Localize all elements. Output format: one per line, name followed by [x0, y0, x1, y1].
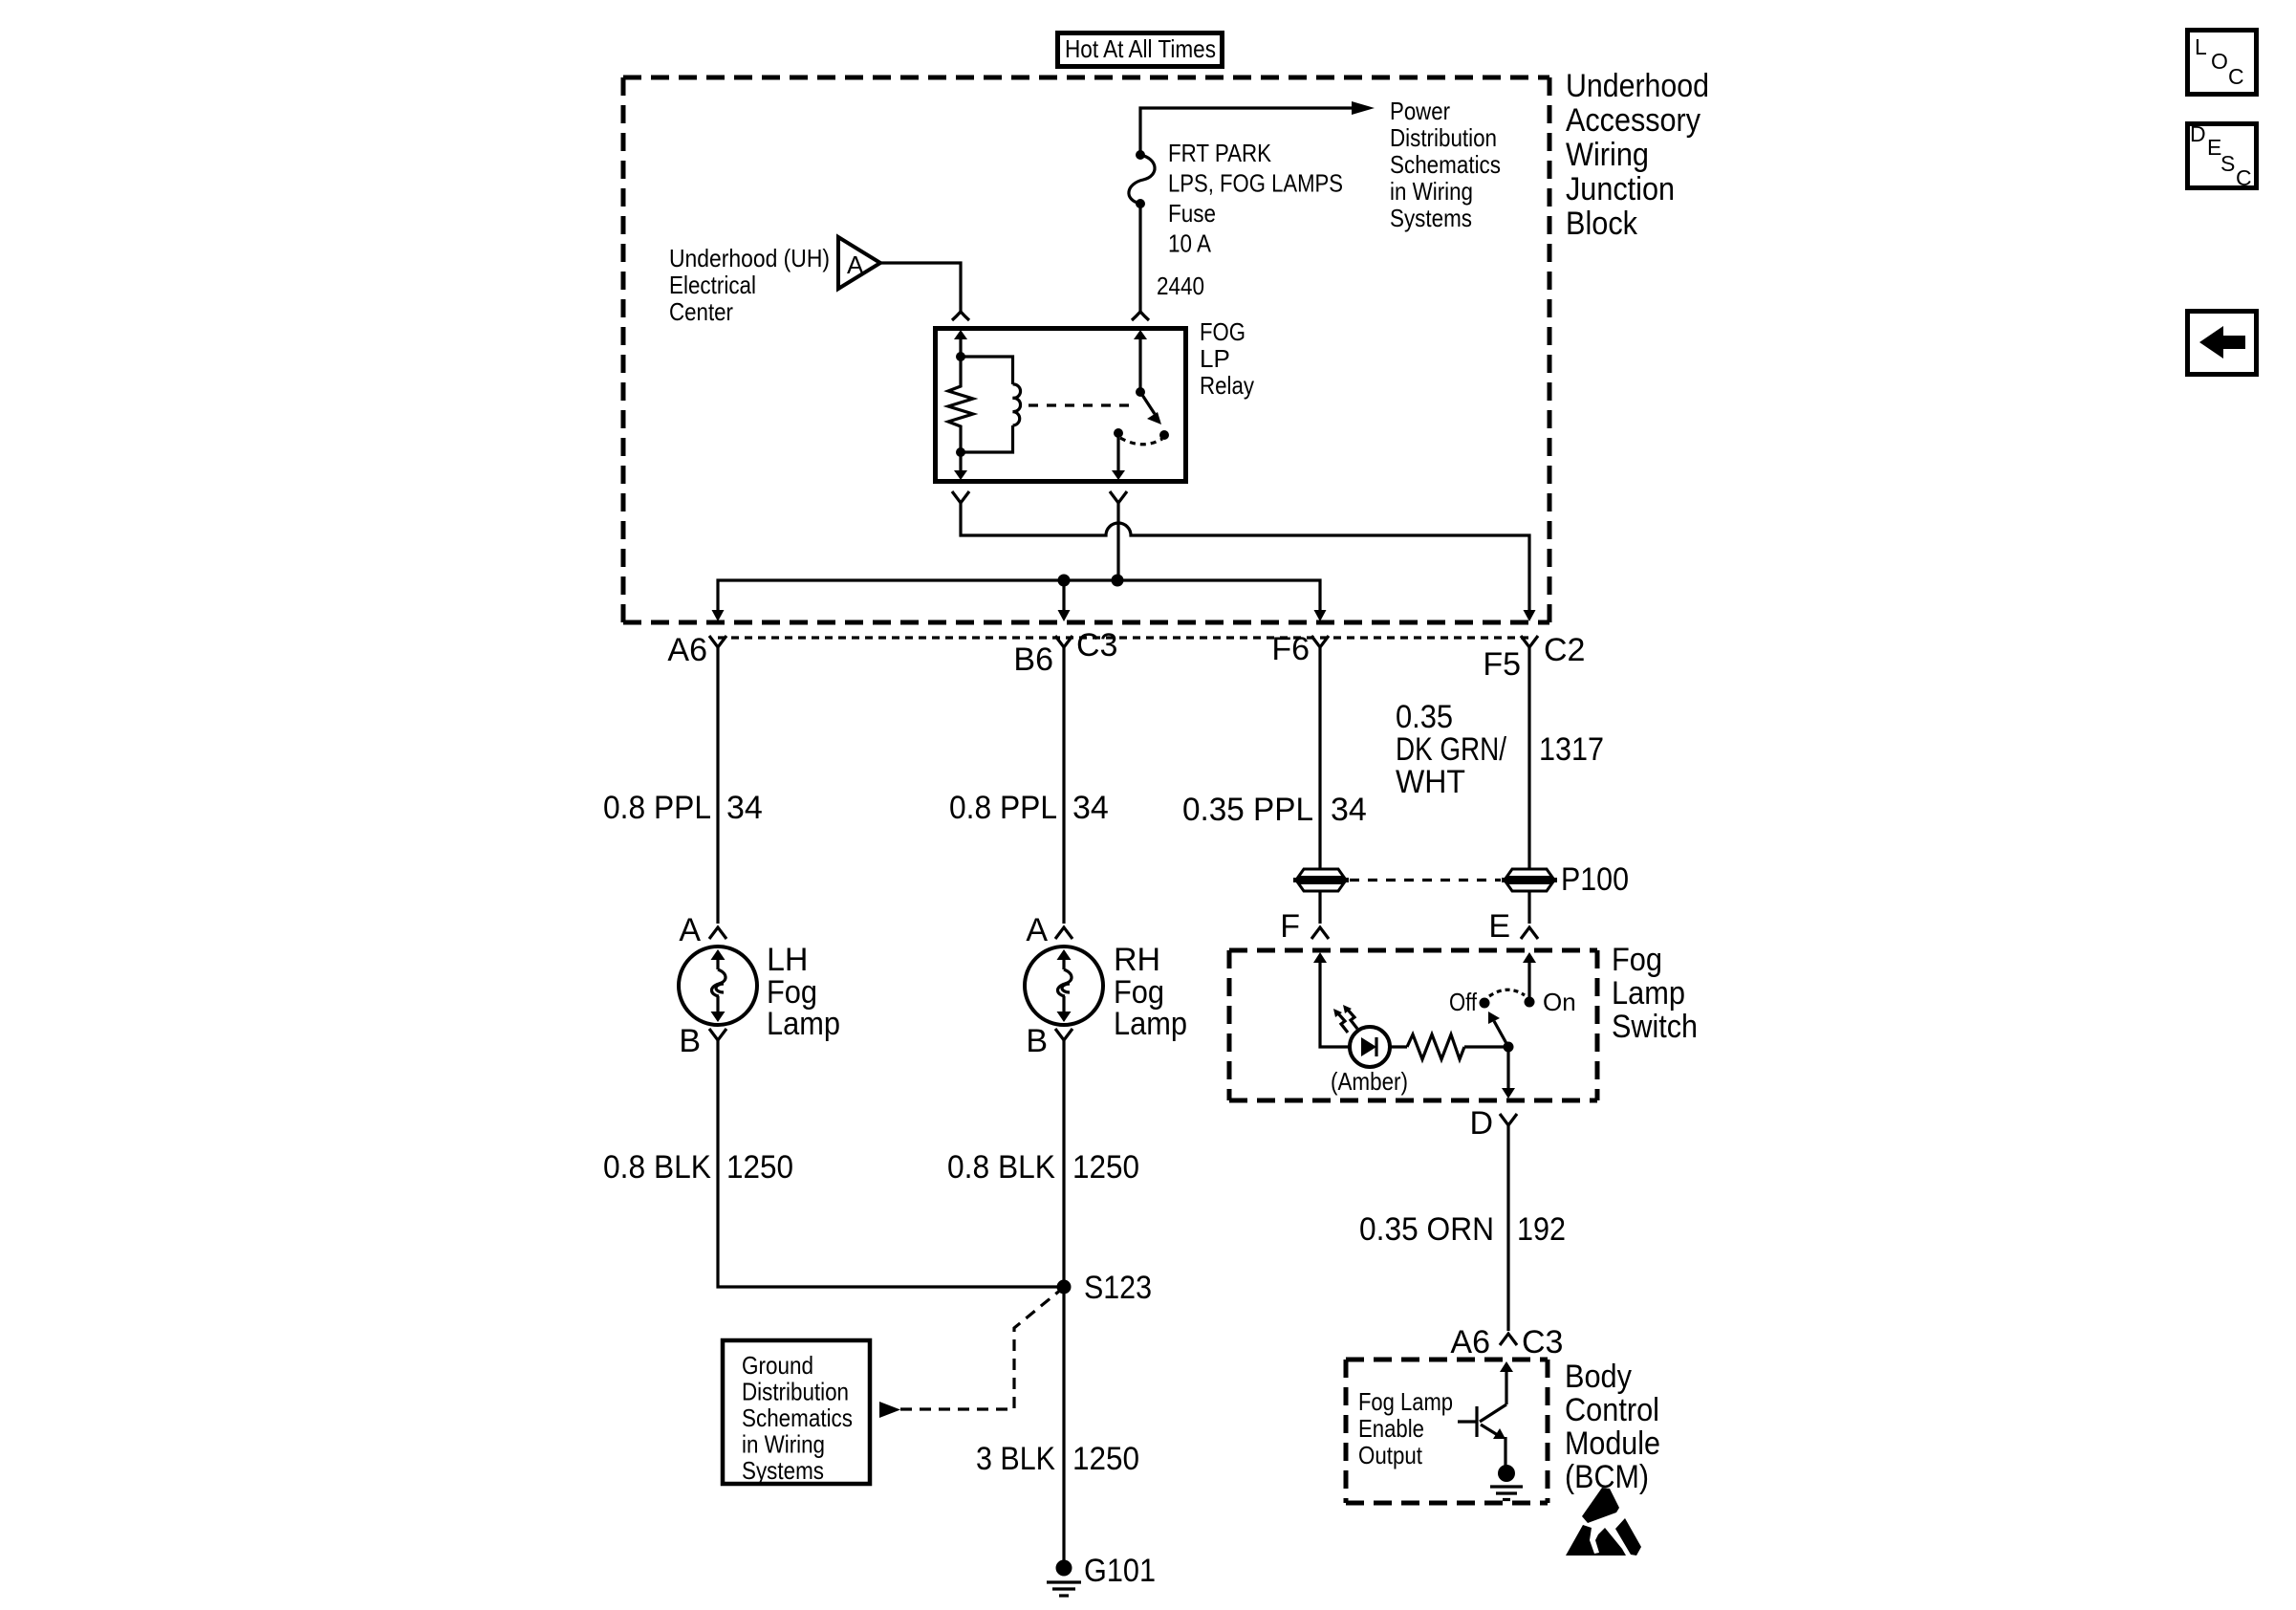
svg-text:0.8 PPL: 0.8 PPL: [949, 790, 1057, 826]
svg-text:LH: LH: [767, 942, 808, 978]
connector chevron A6: [709, 636, 726, 647]
svg-text:1317: 1317: [1539, 731, 1604, 768]
svg-text:10 A: 10 A: [1168, 229, 1212, 258]
BCM internal ground: [1490, 1465, 1523, 1500]
label: 0.8 PPL 34 (RH): [949, 790, 1109, 826]
label: 0.8 BLK 1250 (RH): [947, 1149, 1139, 1186]
svg-text:Hot At All Times: Hot At All Times: [1065, 34, 1216, 63]
wire: F6 to fog lamp switch 0.35 PPL 34: [1318, 647, 1321, 869]
svg-text:Fog: Fog: [1612, 942, 1662, 978]
svg-text:L: L: [2195, 34, 2207, 59]
label: LH Fog Lamp: [767, 942, 840, 1042]
relay internal resistor: [948, 357, 973, 452]
svg-text:Underhood: Underhood: [1566, 68, 1709, 104]
svg-text:Underhood (UH): Underhood (UH): [669, 244, 830, 272]
svg-text:A6: A6: [667, 632, 707, 668]
svg-text:D: D: [1469, 1105, 1493, 1142]
svg-text:A: A: [847, 250, 864, 279]
svg-text:Off: Off: [1449, 988, 1478, 1016]
svg-text:C2: C2: [1544, 632, 1585, 668]
svg-text:B6: B6: [1013, 642, 1053, 678]
body control module dashed box: [1346, 1360, 1548, 1503]
inline connector P100 (right half): [1502, 869, 1557, 891]
inline connector P100 (left half): [1293, 869, 1349, 891]
svg-text:Center: Center: [669, 297, 733, 326]
switch illumination feed arrow (pin F side): [1313, 952, 1350, 1047]
svg-text:1250: 1250: [1072, 1149, 1139, 1186]
connector chevron A6/C3 at BCM: [1500, 1334, 1517, 1345]
svg-text:34: 34: [1331, 792, 1367, 828]
label: RH Fog Lamp: [1114, 942, 1187, 1042]
BCM input arrow: [1500, 1361, 1513, 1404]
dashed tie between P100 halves: [1350, 879, 1501, 881]
connector chevron F5/C2: [1521, 636, 1538, 647]
svg-text:Body: Body: [1565, 1359, 1632, 1395]
bus: relay output distribution: [718, 575, 1320, 614]
connector chevron at relay B+ input: [1132, 312, 1149, 320]
svg-text:LPS, FOG LAMPS: LPS, FOG LAMPS: [1168, 169, 1343, 198]
svg-text:B: B: [679, 1023, 701, 1059]
thin dashed connector face line: [718, 636, 1529, 639]
label: 0.8 BLK 1250 (LH): [603, 1149, 793, 1186]
wire: switch D to BCM, 0.35 ORN 192: [1506, 1124, 1509, 1331]
svg-text:Module: Module: [1565, 1425, 1660, 1462]
svg-text:F: F: [1280, 908, 1300, 945]
svg-text:Lamp: Lamp: [1114, 1006, 1187, 1042]
wire: power feed to power distribution (arrow right): [1140, 101, 1375, 155]
svg-text:F6: F6: [1271, 631, 1310, 667]
label: Underhood Accessory Wiring Junction Block: [1566, 68, 1709, 242]
relay coil-side pin arrow (up): [954, 330, 967, 361]
svg-text:Block: Block: [1566, 206, 1638, 242]
svg-text:A6: A6: [1450, 1324, 1490, 1360]
fog lamp switch dashed box: [1229, 950, 1597, 1100]
svg-text:On: On: [1543, 988, 1576, 1016]
svg-text:S123: S123: [1084, 1270, 1152, 1306]
label: FOG LP Relay: [1200, 317, 1254, 400]
switch movable arm (at Off): [1488, 1012, 1508, 1047]
connector chevron pin F: [1311, 927, 1329, 939]
svg-text:Output: Output: [1358, 1441, 1423, 1469]
svg-text:Fog Lamp: Fog Lamp: [1358, 1387, 1453, 1416]
svg-text:0.8 PPL: 0.8 PPL: [603, 790, 711, 826]
connector chevron below relay coil pin: [952, 491, 969, 503]
svg-text:FOG: FOG: [1200, 317, 1245, 346]
label: Body Control Module (BCM): [1565, 1359, 1660, 1495]
wire: RH lamp ground 0.8 BLK 1250: [1062, 1039, 1065, 1287]
switch On contact: [1525, 997, 1535, 1008]
svg-text:Lamp: Lamp: [1612, 975, 1685, 1012]
svg-text:DK GRN/: DK GRN/: [1396, 731, 1506, 768]
svg-text:Power: Power: [1390, 97, 1450, 125]
relay switch throw dashed arc: [1120, 438, 1162, 445]
wire: C2/F5 to fog lamp switch 0.35 DK GRN/WHT 1317: [1527, 647, 1530, 869]
svg-text:Accessory: Accessory: [1566, 102, 1700, 139]
svg-text:Distribution: Distribution: [1390, 123, 1497, 152]
connector chevron pin D: [1500, 1114, 1517, 1125]
relay switch arm: [1140, 392, 1161, 424]
svg-text:Lamp: Lamp: [767, 1006, 840, 1042]
ESD sensitivity symbol: [1566, 1488, 1641, 1556]
svg-text:Distribution: Distribution: [742, 1378, 849, 1406]
switch illumination resistor: [1390, 1034, 1508, 1059]
svg-text:0.35 ORN: 0.35 ORN: [1359, 1211, 1494, 1248]
svg-text:192: 192: [1517, 1211, 1566, 1248]
svg-text:1250: 1250: [726, 1149, 793, 1186]
svg-text:B: B: [1026, 1023, 1048, 1059]
transistor Q (fog lamp enable output driver): [1458, 1404, 1506, 1466]
underhood accessory wiring junction block dashed box: [623, 77, 1549, 622]
RH fog lamp: [1025, 946, 1103, 1025]
connector chevron F6: [1311, 636, 1329, 647]
svg-text:Wiring: Wiring: [1566, 137, 1649, 173]
label: 0.35 DK GRN/ WHT: [1396, 699, 1506, 800]
svg-text:Schematics: Schematics: [1390, 150, 1501, 179]
relay coil-side bottom pin arrow (down): [954, 452, 967, 480]
connector chevron B6/C3: [1055, 636, 1072, 647]
svg-text:Ground: Ground: [742, 1351, 813, 1380]
svg-text:LP: LP: [1200, 344, 1230, 373]
ground distribution note box: [723, 1340, 870, 1485]
svg-text:(Amber): (Amber): [1331, 1067, 1408, 1096]
svg-text:2440: 2440: [1157, 272, 1204, 300]
connector chevron at relay coil input: [952, 312, 969, 320]
switch throw dashed arc: [1489, 990, 1525, 996]
label: 3 BLK 1250: [976, 1441, 1139, 1477]
wire: relay switch output down to bus: [1116, 503, 1119, 580]
connector chevron pin A (RH): [1055, 927, 1072, 939]
relay K: FOG LP Relay box: [936, 329, 1186, 482]
ground G101: [1047, 1553, 1156, 1596]
wire: switch On contact from pin E: [1523, 952, 1536, 997]
svg-text:S: S: [2220, 151, 2235, 176]
svg-text:in Wiring: in Wiring: [742, 1430, 825, 1459]
svg-text:P100: P100: [1561, 861, 1629, 898]
svg-text:Systems: Systems: [742, 1456, 824, 1485]
label: 0.35 ORN 192: [1359, 1211, 1566, 1248]
connector chevron pin B (LH): [709, 1029, 726, 1040]
relay switch common contact: [1112, 428, 1125, 480]
label: 0.35 PPL 34: [1182, 792, 1367, 828]
fuse: FRT PARK LPS, FOG LAMPS Fuse 10 A: [1129, 150, 1155, 208]
svg-text:Schematics: Schematics: [742, 1403, 853, 1432]
svg-text:34: 34: [726, 790, 763, 826]
svg-text:Electrical: Electrical: [669, 271, 756, 299]
svg-text:A: A: [1026, 912, 1048, 948]
svg-text:34: 34: [1072, 790, 1109, 826]
svg-text:Fuse: Fuse: [1168, 199, 1216, 228]
connector chevron pin B (RH): [1055, 1029, 1072, 1040]
off-page triangle connector A: [838, 237, 880, 289]
svg-text:0.8 BLK: 0.8 BLK: [947, 1149, 1055, 1186]
connector chevron pin E: [1521, 927, 1538, 939]
switch common node: [1504, 1042, 1514, 1053]
svg-text:RH: RH: [1114, 942, 1160, 978]
label: fuse name: [1168, 139, 1343, 258]
svg-text:C: C: [2228, 64, 2244, 89]
svg-text:E: E: [1488, 908, 1510, 945]
connector chevron below relay switch pin: [1110, 491, 1127, 503]
wire: fuse to relay, circuit 2440: [1138, 204, 1141, 313]
svg-text:0.35: 0.35: [1396, 699, 1453, 735]
wire: switch output to pin D: [1502, 1047, 1515, 1099]
svg-text:Switch: Switch: [1612, 1009, 1698, 1045]
svg-text:G101: G101: [1084, 1553, 1156, 1589]
relay switch closed contact dot: [1159, 430, 1169, 440]
svg-text:3 BLK: 3 BLK: [976, 1441, 1055, 1477]
svg-text:C3: C3: [1522, 1324, 1563, 1360]
svg-text:Systems: Systems: [1390, 204, 1472, 232]
arrowheads at junction block exits: [712, 610, 725, 621]
svg-text:Enable: Enable: [1358, 1414, 1424, 1443]
relay switch-side pin arrow (up): [1134, 330, 1147, 397]
svg-text:WHT: WHT: [1396, 764, 1465, 800]
svg-text:Relay: Relay: [1200, 371, 1254, 400]
svg-text:C3: C3: [1076, 627, 1117, 664]
svg-text:in Wiring: in Wiring: [1390, 177, 1473, 206]
switch Off contact: [1480, 998, 1490, 1009]
splice S123: [1057, 1270, 1153, 1306]
svg-text:A: A: [679, 912, 701, 948]
ground distribution arrow and dashed reference to S123: [879, 1289, 1062, 1418]
label: Fog Lamp Switch: [1612, 942, 1698, 1045]
relay actuation dashed link: [1029, 403, 1134, 406]
hot at all times label box: [1058, 33, 1223, 67]
LH fog lamp: [679, 946, 757, 1025]
label: Underhood (UH) Electrical Center: [669, 244, 830, 326]
page nav: back arrow box: [2188, 312, 2257, 375]
wire: LH lamp ground 0.8 BLK 1250 to S123: [718, 1039, 1064, 1287]
wire: S123 to G101, 3 BLK 1250: [1062, 1287, 1065, 1562]
wire: P100 to switch pin F: [1318, 891, 1321, 924]
wire: relay coil ground path to C2 (with hop): [961, 503, 1529, 613]
svg-text:0.35 PPL: 0.35 PPL: [1182, 792, 1313, 828]
svg-text:1250: 1250: [1072, 1441, 1139, 1477]
indicator LED (Amber): [1350, 1027, 1390, 1067]
connector chevron pin A (LH): [709, 927, 726, 939]
label: Power Distribution Schematics in Wiring Systems: [1390, 97, 1501, 232]
wire: P100 to switch pin E: [1527, 891, 1530, 924]
svg-text:C: C: [2236, 165, 2252, 190]
svg-text:Control: Control: [1565, 1392, 1659, 1428]
svg-text:FRT PARK: FRT PARK: [1168, 139, 1272, 167]
svg-text:D: D: [2190, 121, 2206, 146]
svg-text:F5: F5: [1483, 646, 1521, 683]
svg-text:0.8 BLK: 0.8 BLK: [603, 1149, 711, 1186]
wire: B6/C3 to RH fog lamp, 0.8 PPL 34: [1062, 647, 1065, 924]
page nav: DESC box: [2188, 121, 2257, 190]
wire: triangle A to relay coil input: [880, 263, 961, 313]
relay coil: [956, 357, 1021, 457]
svg-text:O: O: [2211, 49, 2228, 74]
label: 0.8 PPL 34 (LH): [603, 790, 763, 826]
label: Fog Lamp Enable Output: [1358, 1387, 1453, 1469]
svg-text:Junction: Junction: [1566, 171, 1675, 207]
LED light rays: [1333, 1005, 1357, 1033]
wire: A6 to LH fog lamp, 0.8 PPL 34: [716, 647, 719, 924]
page nav: LOC box: [2188, 31, 2257, 95]
